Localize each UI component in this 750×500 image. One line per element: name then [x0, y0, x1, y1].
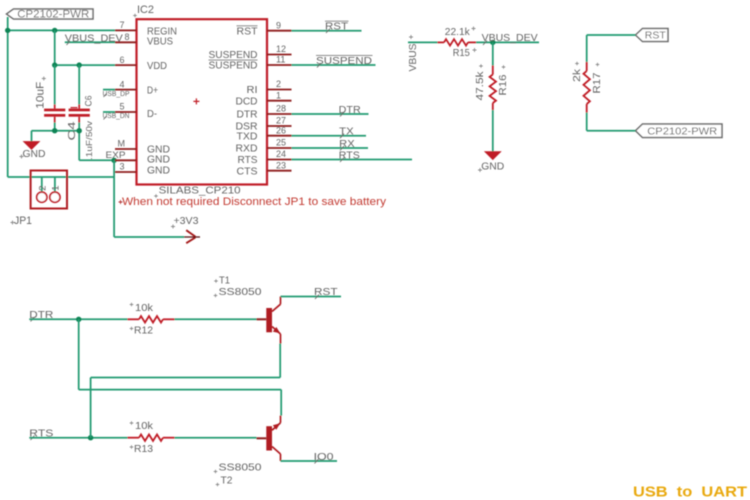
svg-text:7: 7 — [120, 20, 125, 30]
svg-text:VDD: VDD — [147, 60, 167, 72]
svg-text:T2: T2 — [221, 475, 233, 487]
svg-text:47.5k: 47.5k — [474, 71, 486, 101]
svg-text:TXD: TXD — [237, 130, 258, 142]
svg-text:VBUS_DEV: VBUS_DEV — [482, 32, 538, 44]
svg-text:.1uF/50v: .1uF/50v — [85, 121, 94, 160]
svg-text:22.1k: 22.1k — [445, 26, 471, 38]
svg-text:10uF: 10uF — [34, 81, 46, 108]
svg-text:10k: 10k — [135, 302, 154, 314]
svg-text:5: 5 — [120, 102, 125, 112]
svg-text:SUSPEND: SUSPEND — [316, 55, 372, 67]
svg-text:DTR: DTR — [237, 109, 258, 121]
svg-text:R13: R13 — [134, 443, 153, 455]
svg-text:DCD: DCD — [236, 95, 258, 107]
svg-text:USB_DN: USB_DN — [103, 113, 130, 120]
svg-text:+3V3: +3V3 — [174, 215, 199, 227]
svg-text:CP2102-PWR: CP2102-PWR — [17, 9, 89, 21]
svg-text:RST: RST — [645, 30, 667, 42]
svg-text:28: 28 — [276, 104, 286, 114]
svg-text:RX: RX — [339, 138, 355, 150]
svg-text:R17: R17 — [591, 72, 603, 93]
svg-text:GND: GND — [23, 148, 46, 160]
svg-text:C4: C4 — [66, 121, 78, 140]
svg-text:R16: R16 — [497, 74, 509, 95]
svg-text:CP2102-PWR: CP2102-PWR — [647, 125, 717, 137]
svg-text:R12: R12 — [134, 325, 153, 337]
svg-text:D+: D+ — [147, 84, 158, 96]
svg-text:2: 2 — [38, 186, 49, 191]
svg-text:RST: RST — [237, 25, 259, 37]
svg-text:24: 24 — [276, 149, 286, 159]
svg-text:T1: T1 — [219, 275, 230, 287]
svg-text:VBUS: VBUS — [147, 36, 173, 48]
svg-text:TX: TX — [339, 126, 354, 138]
svg-text:SS8050: SS8050 — [219, 462, 262, 474]
svg-text:GND: GND — [481, 161, 504, 173]
svg-text:27: 27 — [276, 116, 286, 126]
svg-text:RI: RI — [247, 84, 258, 96]
svg-text:GND: GND — [147, 164, 170, 176]
svg-text:3: 3 — [120, 162, 125, 172]
svg-text:25: 25 — [276, 138, 286, 148]
svg-text:23: 23 — [276, 160, 286, 170]
svg-text:VBUS_DEV: VBUS_DEV — [65, 32, 123, 44]
svg-text:When not required Disconnect J: When not required Disconnect JP1 to save… — [122, 196, 387, 208]
svg-text:SUSPEND: SUSPEND — [209, 60, 258, 72]
svg-text:M: M — [118, 139, 126, 149]
svg-text:R15: R15 — [453, 47, 470, 59]
svg-text:VBUS: VBUS — [407, 44, 419, 72]
svg-text:4: 4 — [120, 79, 125, 89]
svg-text:JP1: JP1 — [14, 215, 32, 227]
svg-text:IC2: IC2 — [137, 4, 154, 16]
svg-text:10k: 10k — [135, 420, 154, 432]
svg-text:2k: 2k — [571, 68, 583, 82]
svg-text:C6: C6 — [83, 96, 93, 107]
svg-text:9: 9 — [276, 20, 281, 30]
svg-text:26: 26 — [276, 125, 286, 135]
svg-text:SILABS_CP210: SILABS_CP210 — [159, 185, 241, 197]
svg-text:D-: D- — [147, 108, 157, 120]
svg-text:12: 12 — [276, 44, 286, 54]
svg-text:SS8050: SS8050 — [219, 286, 262, 298]
svg-text:8: 8 — [125, 32, 130, 42]
svg-text:USB_DP: USB_DP — [103, 91, 130, 98]
svg-text:RXD: RXD — [236, 143, 258, 155]
svg-text:1: 1 — [51, 186, 62, 191]
svg-text:CTS: CTS — [237, 165, 258, 177]
svg-text:11: 11 — [276, 55, 285, 65]
svg-text:2: 2 — [276, 79, 281, 89]
svg-text:RTS: RTS — [238, 154, 258, 166]
svg-text:1: 1 — [276, 90, 281, 100]
svg-text:6: 6 — [120, 55, 125, 65]
svg-text:EXP: EXP — [106, 150, 126, 161]
svg-text:USB to UART: USB to UART — [633, 484, 747, 500]
